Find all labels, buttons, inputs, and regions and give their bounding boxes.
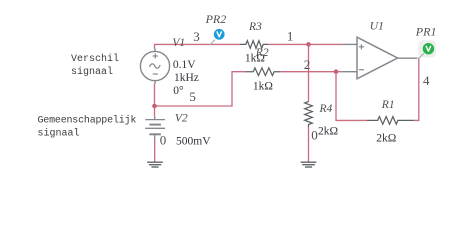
wire net1 R3 to op-amp + [269,43,344,45]
svg-text:500mV: 500mV [176,135,211,147]
svg-text:Verschil: Verschil [71,53,119,65]
svg-text:2: 2 [304,57,311,72]
svg-text:4: 4 [423,73,430,88]
junction node1 [306,42,311,47]
ground under V2 [147,162,163,167]
svg-text:0°: 0° [173,85,184,97]
junction node2 [334,69,339,74]
ground under R4 [301,162,317,167]
svg-text:V2: V2 [175,112,188,124]
caption Gemeenschappelijk signaal [38,115,137,140]
svg-text:2kΩ: 2kΩ [376,132,396,144]
svg-text:0: 0 [311,127,318,142]
svg-text:U1: U1 [370,21,384,33]
svg-text:R2: R2 [255,47,269,59]
battery V2 [145,112,211,147]
svg-text:signaal: signaal [71,66,113,78]
wire R1 to output node4 [414,58,418,120]
wire net3 V1 top to R3 [155,44,240,48]
svg-text:V1: V1 [172,37,185,49]
svg-text:1kHz: 1kHz [174,72,199,84]
probe PR1 [415,25,437,59]
svg-text:3: 3 [193,29,200,44]
wire node2 down to R1 [336,72,367,121]
svg-text:R4: R4 [319,103,333,115]
svg-text:R3: R3 [248,21,262,33]
wire V2 to ground [154,140,156,162]
caption Verschil signaal [71,53,119,78]
resistor R2 [246,47,281,93]
svg-text:R1: R1 [381,99,395,111]
op-amp U1 [342,21,418,79]
svg-text:0: 0 [160,132,167,147]
junction V2 tap [152,104,157,109]
source V1 [140,37,199,97]
resistor R3 [240,21,269,65]
resistor R4 [305,102,338,138]
svg-text:signaal: signaal [38,127,80,139]
wire V1 bottom to node5 run [155,72,246,106]
svg-text:PR1: PR1 [415,25,437,39]
svg-text:2kΩ: 2kΩ [318,125,338,137]
svg-text:0.1V: 0.1V [173,59,196,71]
wire V2 top [154,106,156,116]
wire node1 down to R4 [308,44,310,101]
resistor R1 [367,99,414,144]
svg-text:Gemeenschappelijk: Gemeenschappelijk [38,115,137,127]
wire net2 R2 to op-amp minus [280,71,341,73]
probe PR2 [205,12,227,46]
svg-text:PR2: PR2 [205,12,227,26]
wire R4 to ground [308,127,310,162]
svg-text:1kΩ: 1kΩ [253,81,273,93]
svg-text:5: 5 [189,89,196,104]
svg-text:1: 1 [287,29,294,44]
